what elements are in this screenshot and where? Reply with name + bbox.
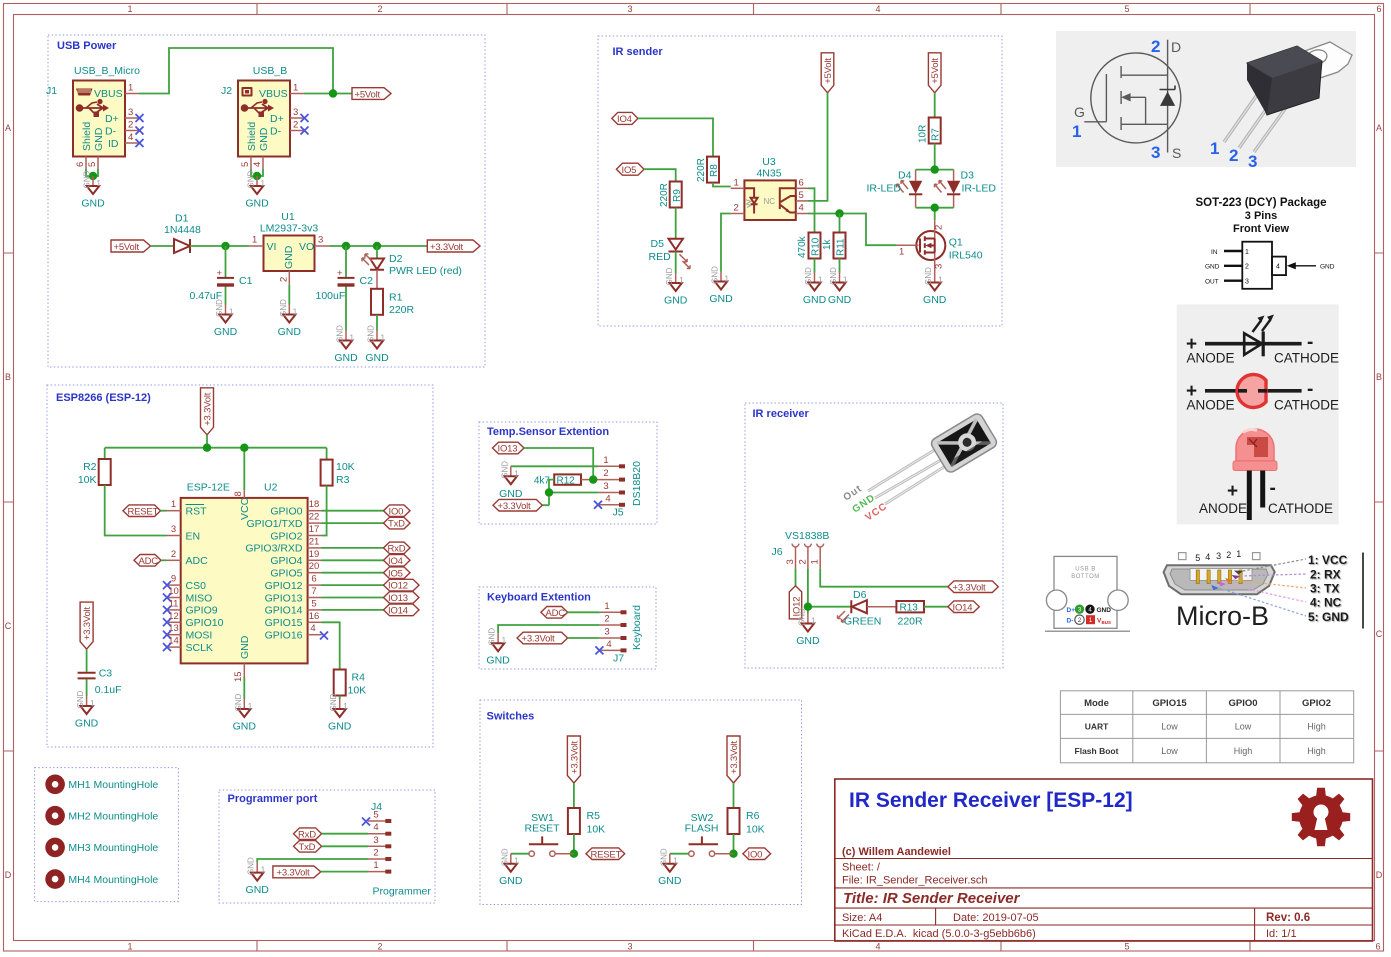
svg-text:6: 6 xyxy=(75,162,86,167)
ground symbol U1 xyxy=(278,299,302,338)
wire SW1 to gnd xyxy=(511,853,529,855)
svg-text:S: S xyxy=(1172,145,1181,161)
svg-text:GND: GND xyxy=(258,127,270,151)
global label +3.3Volt (receiver) xyxy=(948,581,998,593)
svg-text:2: 2 xyxy=(377,942,382,952)
svg-text:G: G xyxy=(1074,104,1085,120)
wire gnd to pin1 xyxy=(511,465,599,467)
TO-220 package drawing xyxy=(1224,42,1352,152)
global label IO5 xyxy=(616,163,644,175)
wire U3 pin6 to R10 xyxy=(808,188,815,232)
U3 pin 5 xyxy=(796,200,808,202)
svg-text:J7: J7 xyxy=(613,653,624,665)
svg-text:2: 2 xyxy=(1245,264,1249,271)
ground symbol C2 xyxy=(334,325,358,364)
svg-text:Low: Low xyxy=(1235,722,1252,732)
global label IO0 (switch) xyxy=(743,848,771,860)
svg-text:20: 20 xyxy=(309,561,320,572)
svg-text:1: 1 xyxy=(252,235,257,246)
svg-text:Mode: Mode xyxy=(1084,698,1109,709)
frame column ticks bottom xyxy=(257,941,1250,952)
svg-text:IO5: IO5 xyxy=(388,568,403,579)
svg-text:4k7: 4k7 xyxy=(534,475,551,486)
svg-text:R13: R13 xyxy=(900,602,919,613)
svg-text:D5: D5 xyxy=(651,238,665,250)
wire 3v3 to C3 xyxy=(86,649,88,672)
svg-text:2: 2 xyxy=(934,225,945,230)
wire R5 to node xyxy=(573,834,575,854)
resistor R11 1k xyxy=(834,233,846,259)
U3 pin 6 xyxy=(796,187,808,189)
section box Keyboard xyxy=(479,587,656,669)
resistor R6 10K xyxy=(728,808,740,834)
wire R1 to gnd xyxy=(376,315,378,331)
ground symbol J1 xyxy=(81,170,105,209)
svg-text:+3.3Volt: +3.3Volt xyxy=(430,242,464,253)
svg-text:IR receiver: IR receiver xyxy=(753,408,810,420)
svg-text:3: 3 xyxy=(604,627,609,638)
J6 pin 3 xyxy=(792,544,799,569)
svg-text:RESET: RESET xyxy=(524,823,560,835)
J4 pin 5 xyxy=(368,820,386,822)
optocoupler U3 4N35 body xyxy=(744,180,795,220)
svg-text:GPIO1/TXD: GPIO1/TXD xyxy=(246,518,302,530)
svg-text:U2: U2 xyxy=(264,482,278,494)
wire R9 to D5 xyxy=(675,208,677,239)
svg-text:IO13: IO13 xyxy=(498,444,518,455)
no-connect MISO xyxy=(163,594,171,602)
wire gnd to J7 pin2 xyxy=(498,625,600,633)
image: LED polarity diagrams xyxy=(1177,304,1339,524)
wire U2 gnd xyxy=(243,677,245,699)
wire +5Volt to U3 pin5 xyxy=(808,93,828,201)
power flag +3.3Volt SW1 xyxy=(567,736,580,783)
wire U1 gnd xyxy=(288,285,290,305)
J2 no-connect pin3 xyxy=(301,114,309,122)
wire J6 pin1 to 3v3 xyxy=(820,569,948,587)
svg-text:Rev: 0.6: Rev: 0.6 xyxy=(1266,912,1310,924)
svg-text:RxD: RxD xyxy=(298,829,316,840)
junction LED rail bottom xyxy=(931,204,939,212)
resistor R3 10K xyxy=(321,460,333,486)
J2 pin 3 D+ xyxy=(290,117,304,119)
LED D2 PWR xyxy=(370,259,384,270)
no-connect GPIO10 xyxy=(163,618,171,626)
junction J2 gnd xyxy=(253,172,261,180)
svg-text:IO0: IO0 xyxy=(748,849,763,860)
image: MOSFET symbol + TO-220 package xyxy=(1056,31,1356,167)
svg-text:C1: C1 xyxy=(239,275,253,287)
svg-text:10K: 10K xyxy=(746,824,765,836)
svg-text:220R: 220R xyxy=(659,183,670,207)
resistor R2 10K xyxy=(99,459,111,485)
svg-text:Id: 1/1: Id: 1/1 xyxy=(1266,928,1297,940)
global label IO4 (esp) xyxy=(384,555,411,567)
connector J7 pin 4 xyxy=(600,649,622,651)
svg-text:8: 8 xyxy=(233,491,244,496)
svg-text:220R: 220R xyxy=(898,616,924,628)
svg-text:IO5: IO5 xyxy=(622,165,637,176)
svg-text:RESET: RESET xyxy=(591,849,622,860)
svg-text:15: 15 xyxy=(233,671,244,682)
wire TxD xyxy=(322,845,368,847)
svg-text:IO4: IO4 xyxy=(388,556,403,567)
svg-text:CATHODE: CATHODE xyxy=(1274,351,1339,366)
U1 pin 2 xyxy=(288,271,290,285)
svg-text:3 Pins: 3 Pins xyxy=(1245,210,1277,222)
junction pin2 xyxy=(589,475,597,483)
svg-text:C: C xyxy=(5,621,12,631)
connector J7 pin 2 xyxy=(600,624,622,626)
wire +5Volt to R7 xyxy=(934,93,936,118)
wire R6 to node xyxy=(733,834,735,854)
global label IO13 (esp) xyxy=(384,592,420,604)
U2 pin 9 CS0 xyxy=(167,584,181,586)
svg-text:2: 2 xyxy=(797,559,808,564)
svg-text:GPIO10: GPIO10 xyxy=(186,617,224,629)
power flag +3.3Volt SW2 xyxy=(727,736,740,783)
power flag +3.3Volt top xyxy=(201,388,214,435)
svg-text:2: 2 xyxy=(734,203,739,214)
J2 USB-B receptacle icon xyxy=(242,87,253,97)
ground symbol J4 xyxy=(246,857,270,896)
wire U3 pin2 to gnd xyxy=(721,214,731,272)
switch SW1 RESET xyxy=(529,851,534,856)
svg-text:1: 1 xyxy=(734,177,739,188)
power flag +3.3Volt C3 xyxy=(80,602,93,649)
resistor R1 220R xyxy=(371,289,383,315)
svg-text:+5Volt: +5Volt xyxy=(114,242,140,253)
diode D1 1N4448 xyxy=(174,239,190,253)
svg-text:USB_B: USB_B xyxy=(253,65,287,77)
no-connect SCLK xyxy=(163,643,171,651)
svg-text:USB B: USB B xyxy=(1075,567,1096,573)
image: Micro-B connector photo xyxy=(1164,549,1363,631)
svg-text:MH1 MountingHole: MH1 MountingHole xyxy=(68,779,158,791)
ground symbol U3 xyxy=(709,266,733,305)
svg-text:VBUS: VBUS xyxy=(259,88,288,100)
U3 internal phototransistor xyxy=(780,188,796,197)
power label +5Volt (USB rail) xyxy=(352,88,391,100)
svg-text:5: 5 xyxy=(240,162,251,167)
svg-text:R8: R8 xyxy=(709,164,720,177)
U3 pin 1 xyxy=(731,187,745,189)
wire J6 pin2 to D6 xyxy=(808,569,851,614)
junction rail a xyxy=(203,444,211,452)
junction J6 gnd xyxy=(804,603,812,611)
U2 pin 1 RST xyxy=(167,510,181,512)
svg-text:6: 6 xyxy=(1376,4,1381,14)
wire RESET to RST xyxy=(161,510,167,512)
U1 pin 1 xyxy=(249,245,264,247)
svg-text:5: GND: 5: GND xyxy=(1308,610,1349,624)
wire R8 to U3 pin1 xyxy=(713,183,731,187)
image: boot mode table xyxy=(1060,691,1353,763)
svg-text:RxD: RxD xyxy=(388,544,406,555)
LED D5 RED xyxy=(669,239,683,252)
U2 pin 16 GPIO15 xyxy=(308,621,322,623)
resistor R12 4k7 xyxy=(554,474,581,484)
resistor R10 470k xyxy=(809,233,821,259)
svg-text:1: 1 xyxy=(810,559,821,564)
svg-text:GPIO2: GPIO2 xyxy=(1302,698,1331,709)
J2 USB trident icon xyxy=(241,99,274,117)
svg-text:DS18B20: DS18B20 xyxy=(631,461,643,506)
svg-text:4: 4 xyxy=(875,942,880,952)
svg-text:1: 1 xyxy=(1245,249,1249,256)
svg-text:CATHODE: CATHODE xyxy=(1274,398,1339,413)
svg-text:Shield: Shield xyxy=(81,122,93,151)
connector J5 pin 3 xyxy=(598,492,620,494)
junction D2 top xyxy=(373,242,381,250)
svg-text:4: 4 xyxy=(128,132,133,143)
IC U2 ESP-12E body xyxy=(181,498,308,664)
svg-text:1: 1 xyxy=(128,83,133,94)
svg-text:B: B xyxy=(5,372,11,382)
svg-text:3: 3 xyxy=(1151,143,1160,162)
svg-text:Sheet: /: Sheet: / xyxy=(842,862,881,874)
svg-text:2: 2 xyxy=(377,4,382,14)
svg-text:D+: D+ xyxy=(1067,607,1076,614)
wire D2 branch xyxy=(376,246,378,259)
power label +5Volt above U3 xyxy=(821,53,834,93)
global label IO14 (receiver) xyxy=(948,601,979,613)
svg-text:R2: R2 xyxy=(83,461,97,473)
J6 pin 1 xyxy=(817,544,824,569)
no-connect GPIO9 xyxy=(163,606,171,614)
svg-text:VS1838B: VS1838B xyxy=(785,530,829,542)
svg-text:Micro-B: Micro-B xyxy=(1176,601,1269,631)
svg-text:4: 4 xyxy=(310,623,315,634)
power label +3.3Volt (programmer) xyxy=(273,866,321,878)
svg-text:ADC: ADC xyxy=(139,556,159,567)
KiCad gear logo xyxy=(1292,788,1350,846)
svg-text:1: 1 xyxy=(127,942,132,952)
svg-text:10R: 10R xyxy=(918,125,929,143)
svg-text:R1: R1 xyxy=(389,292,403,304)
section box Programmer port xyxy=(219,790,435,903)
wire IO13 xyxy=(322,597,384,599)
J1 pin 6 Shield stub xyxy=(85,157,87,170)
svg-text:2: 2 xyxy=(1226,550,1231,560)
svg-text:1: 1 xyxy=(604,601,609,612)
LED diagram row 1: diode symbol xyxy=(1205,320,1302,357)
connector J2 USB_B body xyxy=(238,81,290,157)
svg-text:1: 1 xyxy=(1072,122,1081,141)
svg-text:7: 7 xyxy=(311,586,316,597)
U2 pin 13 MOSI xyxy=(167,634,181,636)
J1 pin 4 ID xyxy=(125,142,139,144)
svg-text:C3: C3 xyxy=(99,668,113,680)
svg-text:ANODE: ANODE xyxy=(1187,398,1235,413)
global label IO12 (esp) xyxy=(384,579,420,591)
ground symbol U2 xyxy=(233,693,257,732)
wire to R5 xyxy=(573,783,575,808)
ground symbol SW1 xyxy=(499,848,523,887)
U2 pin 14 SCLK xyxy=(167,646,181,648)
global label TxD xyxy=(384,517,411,529)
svg-text:GPIO0: GPIO0 xyxy=(270,506,302,518)
U2 pin 11 GPIO9 xyxy=(167,609,181,611)
wire D6 to R13 xyxy=(867,606,897,608)
svg-text:J1: J1 xyxy=(46,85,57,97)
svg-text:R4: R4 xyxy=(352,672,366,684)
svg-text:18: 18 xyxy=(309,499,320,510)
svg-text:2: 2 xyxy=(373,848,378,859)
svg-text:C2: C2 xyxy=(360,275,374,287)
svg-text:4: 4 xyxy=(252,162,263,167)
connector J5 pin 4 xyxy=(598,504,620,506)
mounting hole MH1 xyxy=(45,775,65,795)
svg-text:R6: R6 xyxy=(746,810,760,822)
svg-text:LM2937-3v3: LM2937-3v3 xyxy=(260,223,319,235)
svg-text:6: 6 xyxy=(311,574,316,585)
svg-text:D6: D6 xyxy=(853,589,867,601)
svg-text:Flash Boot: Flash Boot xyxy=(1075,746,1119,756)
svg-text:GPIO9: GPIO9 xyxy=(186,605,218,617)
svg-text:3: 3 xyxy=(627,4,632,14)
svg-text:+: + xyxy=(217,268,223,279)
wire IO14 xyxy=(322,609,384,611)
svg-text:3: 3 xyxy=(318,235,323,246)
svg-text:GPIO13: GPIO13 xyxy=(265,592,303,604)
wire D2 to R1 xyxy=(376,270,378,289)
svg-text:R3: R3 xyxy=(336,474,350,486)
global label IO5 (esp) xyxy=(384,567,411,579)
svg-text:220R: 220R xyxy=(389,304,415,316)
svg-text:1: 1 xyxy=(127,4,132,14)
svg-text:IR-LED: IR-LED xyxy=(867,183,902,195)
wire C2 branch xyxy=(345,246,347,331)
svg-text:GPIO5: GPIO5 xyxy=(270,568,302,580)
U2 pin 17 GPIO2 xyxy=(308,535,322,537)
ground symbol R4 xyxy=(328,693,352,732)
svg-text:0.1uF: 0.1uF xyxy=(95,684,122,696)
wire to R6 xyxy=(733,783,735,808)
svg-text:6: 6 xyxy=(799,177,804,188)
J2 pin 4 GND stub xyxy=(262,157,264,170)
wire J1 shield+gnd to ground xyxy=(86,169,98,176)
J1 micro-usb receptacle icon xyxy=(76,89,93,96)
power label +5Volt above R7 xyxy=(928,53,941,93)
J1 pin 5 GND stub xyxy=(97,157,99,170)
LED D3 IR-LED xyxy=(953,170,955,208)
connector J7 pin 3 xyxy=(600,637,622,639)
svg-text:Low: Low xyxy=(1161,746,1178,756)
svg-text:1k: 1k xyxy=(822,238,833,250)
svg-text:SOT-223 (DCY) Package: SOT-223 (DCY) Package xyxy=(1195,197,1326,209)
section box IR sender xyxy=(598,36,1002,326)
no-connect CS0 xyxy=(163,581,171,589)
svg-text:1: 1 xyxy=(899,247,904,258)
svg-text:Title: IR Sender Receiver: Title: IR Sender Receiver xyxy=(843,890,1021,907)
J1 no-connect pin4 xyxy=(136,139,144,147)
wire R12 right to pin2 xyxy=(581,479,598,481)
wire J6 pin3 to IO12 xyxy=(795,569,797,586)
svg-text:D-: D- xyxy=(105,126,117,138)
wire IO5 xyxy=(322,572,384,574)
svg-text:UART: UART xyxy=(1085,722,1109,732)
svg-text:High: High xyxy=(1307,746,1326,756)
wire R3 to GPIO2 xyxy=(322,486,327,536)
resistor R4 10K xyxy=(334,670,346,696)
ground symbol D5 xyxy=(664,267,688,306)
svg-text:MH3 MountingHole: MH3 MountingHole xyxy=(68,842,158,854)
svg-text:D4: D4 xyxy=(898,170,912,182)
resistor R5 10K xyxy=(568,808,580,834)
J1 pin 2 D- xyxy=(125,130,139,132)
ground symbol SW2 xyxy=(658,848,682,887)
svg-text:Q1: Q1 xyxy=(949,237,963,249)
frame row ticks left xyxy=(4,253,14,751)
svg-text:R9: R9 xyxy=(672,189,683,202)
svg-text:1: 1 xyxy=(171,499,176,510)
svg-text:R11: R11 xyxy=(836,238,847,256)
svg-text:High: High xyxy=(1307,722,1326,732)
ground symbol R11 xyxy=(828,267,852,306)
svg-text:SCLK: SCLK xyxy=(186,642,213,654)
svg-text:(c) Willem Aandewiel: (c) Willem Aandewiel xyxy=(842,846,951,858)
global label +3.3Volt (keyboard) xyxy=(517,632,568,644)
svg-text:D: D xyxy=(1376,870,1383,880)
wire R11 branch xyxy=(839,214,841,233)
wire D5 to gnd xyxy=(675,252,677,274)
image: USB B bottom pinout xyxy=(1054,556,1117,628)
svg-text:19: 19 xyxy=(309,549,320,560)
svg-text:5: 5 xyxy=(87,162,98,167)
U2 pin 2 ADC xyxy=(167,559,181,561)
svg-text:+: + xyxy=(1227,481,1238,502)
ground symbol C1 xyxy=(214,299,238,338)
resistor R8 220R xyxy=(707,157,719,183)
svg-text:D: D xyxy=(5,870,12,880)
svg-text:GND: GND xyxy=(1205,264,1220,271)
junction rail b xyxy=(240,444,248,452)
junction 3v3 xyxy=(545,488,553,496)
ground symbol C3 xyxy=(75,690,99,729)
wire IO12 xyxy=(322,584,384,586)
capacitor C3 0.1uF xyxy=(78,673,96,679)
U2 pin 20 GPIO5 xyxy=(308,572,322,574)
svg-text:TxD: TxD xyxy=(299,842,316,853)
svg-text:D: D xyxy=(1171,39,1181,55)
svg-text:GREEN: GREEN xyxy=(844,616,881,628)
wire R10 to gnd xyxy=(814,259,816,273)
svg-text:Programmer: Programmer xyxy=(373,886,432,898)
U2 pin 7 GPIO13 xyxy=(308,597,322,599)
svg-text:GND: GND xyxy=(1320,264,1335,271)
transistor Q1 IRL540 xyxy=(916,231,945,260)
svg-text:D3: D3 xyxy=(961,170,975,182)
U3 pin 4 xyxy=(796,213,808,215)
J4 pin 3 xyxy=(368,845,386,847)
global label IO4 xyxy=(612,112,638,124)
svg-text:MOSI: MOSI xyxy=(186,630,213,642)
section box mounting holes xyxy=(35,768,179,902)
svg-text:2: 2 xyxy=(1229,146,1238,165)
svg-text:IO13: IO13 xyxy=(388,593,408,604)
J1 no-connect pin3 xyxy=(136,114,144,122)
section box Temp.Sensor xyxy=(479,422,657,524)
svg-text:22: 22 xyxy=(309,512,320,523)
svg-text:1: VCC: 1: VCC xyxy=(1308,553,1348,567)
U2 GND pin 15 xyxy=(243,663,245,677)
J2 pin 2 D- xyxy=(290,130,304,132)
svg-text:MH2 MountingHole: MH2 MountingHole xyxy=(68,810,158,822)
U2 pin 12 GPIO10 xyxy=(167,621,181,623)
svg-text:IR-LED: IR-LED xyxy=(962,183,997,195)
IR receiver photo xyxy=(842,412,999,524)
